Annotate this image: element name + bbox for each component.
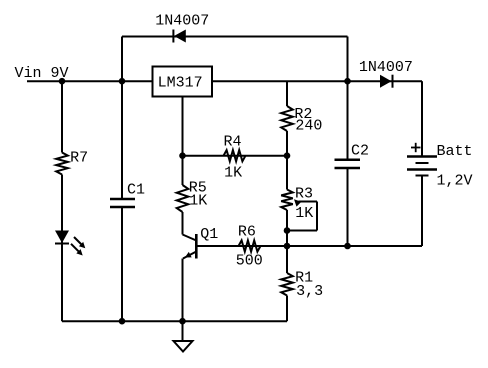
svg-text:1K: 1K bbox=[224, 164, 242, 181]
svg-text:R4: R4 bbox=[224, 134, 242, 151]
svg-text:C1: C1 bbox=[127, 182, 145, 199]
svg-text:500: 500 bbox=[236, 253, 263, 270]
svg-text:1,2V: 1,2V bbox=[437, 173, 473, 190]
svg-text:Vin 9V: Vin 9V bbox=[15, 65, 69, 82]
svg-text:C2: C2 bbox=[351, 142, 369, 159]
svg-text:LM317: LM317 bbox=[158, 75, 203, 92]
svg-text:1K: 1K bbox=[189, 192, 207, 209]
svg-text:R3: R3 bbox=[295, 185, 313, 202]
svg-text:Q1: Q1 bbox=[200, 226, 218, 243]
svg-text:R6: R6 bbox=[238, 223, 256, 240]
svg-text:3,3: 3,3 bbox=[296, 283, 323, 300]
svg-text:R7: R7 bbox=[70, 149, 88, 166]
svg-text:1K: 1K bbox=[295, 205, 313, 222]
svg-text:1N4007: 1N4007 bbox=[155, 13, 209, 30]
svg-text:240: 240 bbox=[295, 118, 322, 135]
svg-text:1N4007: 1N4007 bbox=[359, 59, 413, 76]
svg-text:Batt: Batt bbox=[437, 143, 473, 160]
